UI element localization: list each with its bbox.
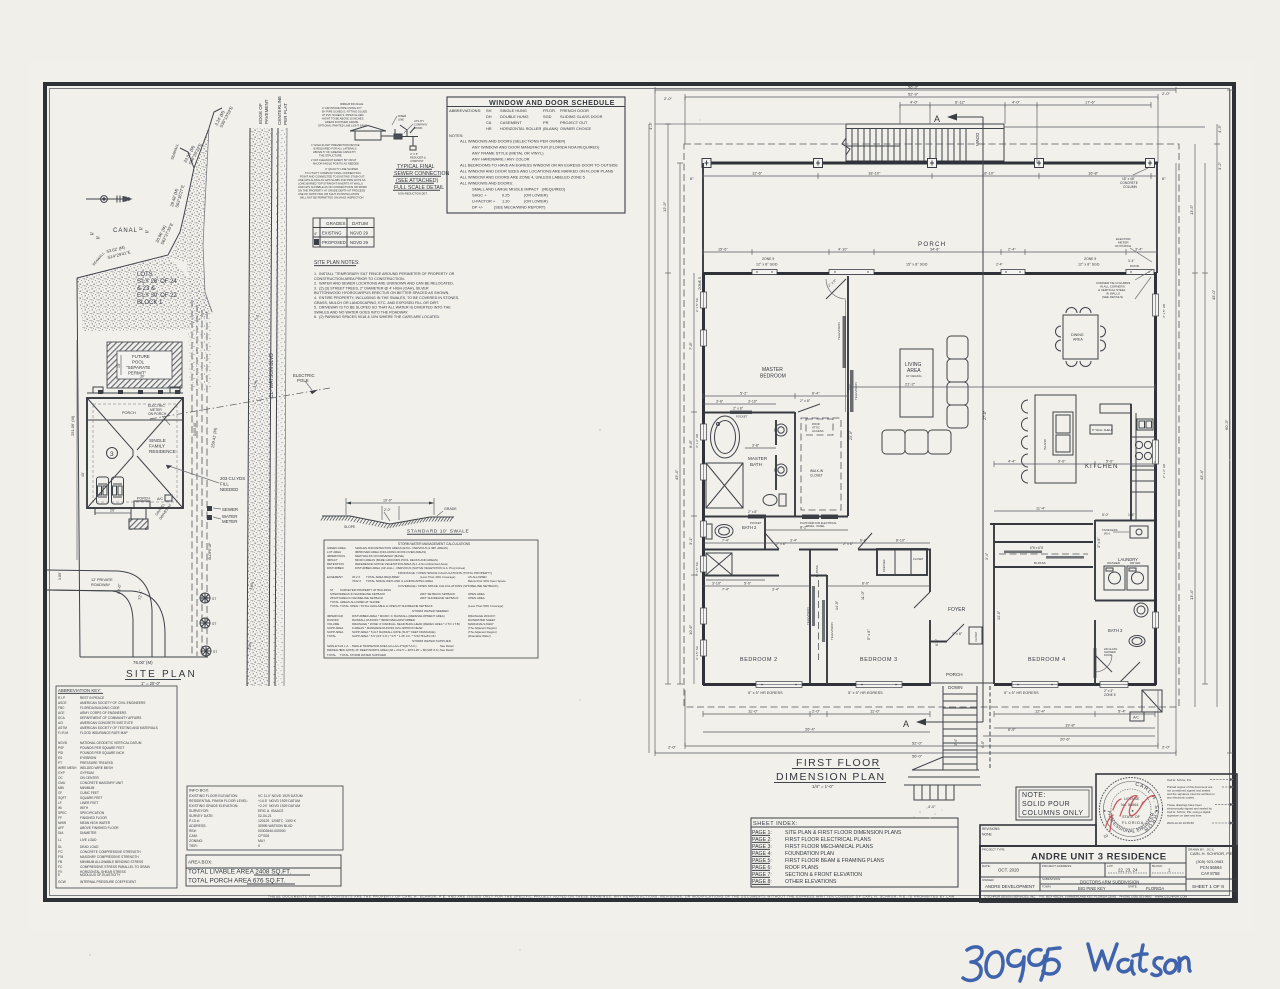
svg-text:DL: DL	[58, 845, 62, 849]
svg-text:W/: W/	[58, 806, 62, 810]
svg-text:SGD: SGD	[543, 114, 552, 119]
svg-text:CMU: CMU	[58, 781, 66, 785]
svg-text:PER PLAT: PER PLAT	[283, 103, 288, 125]
svg-text:LIVE LOAD: LIVE LOAD	[80, 838, 97, 842]
svg-text:4'-4": 4'-4"	[1008, 460, 1016, 464]
svg-text:GYP: GYP	[58, 771, 65, 775]
svg-text:SMALL AND LARGE MISSLE IMPACT: SMALL AND LARGE MISSLE IMPACT (REQUIRED)	[472, 187, 566, 192]
svg-text:60'-3": 60'-3"	[1224, 419, 1229, 430]
master bath top wall	[703, 412, 795, 414]
svg-text:DATE:: DATE:	[982, 864, 991, 868]
svg-text:F'M: F'M	[58, 855, 64, 859]
svg-text:1/4" = 1'-0": 1/4" = 1'-0"	[812, 784, 834, 789]
svg-text:4° x 3° HR: 4° x 3° HR	[695, 433, 699, 448]
svg-text:8'-2": 8'-2"	[800, 526, 808, 530]
svg-text:CARL H. SCHROR, P.E: CARL H. SCHROR, P.E	[1190, 851, 1233, 856]
info box	[187, 786, 343, 850]
red signature	[1106, 796, 1155, 831]
svg-text:WALK-IN: WALK-IN	[810, 469, 824, 473]
svg-text:3'-1": 3'-1"	[688, 536, 693, 545]
svg-text:TELEVISION: TELEVISION	[806, 607, 810, 625]
svg-text:PORCH: PORCH	[946, 672, 963, 677]
svg-text:WITH: WITH	[80, 806, 89, 810]
svg-text:SOLID POUR: SOLID POUR	[1022, 801, 1070, 808]
svg-text:30995 WATSON BLVD: 30995 WATSON BLVD	[258, 824, 293, 828]
svg-text:PAVEMENT: PAVEMENT	[264, 99, 269, 124]
svg-text:43'-4": 43'-4"	[674, 469, 679, 480]
svg-text:5. DRIVEWAY IS TO BE SLOPED S: 5. DRIVEWAY IS TO BE SLOPED SO THAT ALL …	[314, 306, 451, 310]
svg-text:NONE: NONE	[982, 833, 993, 837]
svg-text:REST IN PEACE: REST IN PEACE	[80, 696, 104, 700]
window and door schedule box	[447, 97, 625, 213]
svg-text:A: A	[903, 719, 909, 729]
svg-text:3: 3	[110, 451, 114, 458]
svg-text:DW-1(8X6) 16' DEEP WORKS AREA: DW-1(8X6) 16' DEEP WORKS AREA (A8 + 2X2.…	[340, 648, 439, 652]
svg-text:FBC: FBC	[58, 706, 65, 710]
svg-text:A: A	[934, 114, 940, 124]
front entry stairs	[904, 686, 990, 800]
svg-text:5'-4": 5'-4"	[1118, 709, 1127, 714]
bedroom divider closet walls	[809, 549, 811, 684]
living area box	[900, 349, 933, 417]
handwriting 30995 watson	[963, 944, 1190, 981]
svg-text:ALL BEDROOMS TO HAVE AN EGRESS: ALL BEDROOMS TO HAVE AN EGRESS WINDOW OR…	[460, 163, 618, 168]
leader fill note	[166, 465, 219, 483]
svg-text:FAMILY: FAMILY	[149, 444, 165, 449]
svg-text:FLORIDA: FLORIDA	[1146, 886, 1164, 891]
svg-text:6'-0": 6'-0"	[860, 539, 868, 543]
svg-text:2'-4": 2'-4"	[1008, 248, 1016, 252]
svg-text:5'-0": 5'-0"	[1102, 513, 1110, 517]
svg-text:SWALES AND NO WATER GOES INTO: SWALES AND NO WATER GOES INTO THE ROADWA…	[314, 310, 408, 314]
svg-text:SHEET INDEX:: SHEET INDEX:	[753, 821, 798, 827]
svg-text:LONG BURIED TOP STRAIGHT INVER: LONG BURIED TOP STRAIGHT INVERTS AT WALL…	[298, 182, 363, 186]
island	[1035, 395, 1076, 483]
svg-text:TIER:: TIER:	[189, 844, 198, 848]
porch column dim line	[703, 175, 1158, 177]
svg-text:POLE: POLE	[297, 378, 309, 383]
platform elec panel bars	[802, 515, 819, 520]
top dim line 3	[900, 104, 1151, 106]
svg-text:(BLANK): (BLANK)	[543, 126, 559, 131]
left vertical dims	[667, 124, 669, 684]
svg-text:00302840-000000: 00302840-000000	[258, 829, 286, 833]
svg-text:SHEET 1 OF 8: SHEET 1 OF 8	[1192, 884, 1224, 890]
svg-text:26'-4": 26'-4"	[805, 727, 816, 732]
svg-text:12' PRIVATE: 12' PRIVATE	[91, 578, 113, 582]
svg-text:6'-8": 6'-8"	[688, 439, 693, 448]
svg-text:ANDRE DEVELOPMENT: ANDRE DEVELOPMENT	[985, 884, 1035, 889]
svg-text:ACCESS: ACCESS	[812, 429, 824, 433]
svg-text:AT PVC SCHED.S, PIPES GLUED: AT PVC SCHED.S, PIPES GLUED	[322, 113, 364, 117]
svg-text:DRESSER: DRESSER	[882, 559, 886, 572]
seal side text	[1167, 778, 1215, 825]
svg-text:6'-4": 6'-4"	[812, 392, 820, 396]
note box	[1016, 787, 1092, 820]
svg-text:SURVEYOR:: SURVEYOR:	[189, 809, 209, 813]
svg-text:EDGE OF: EDGE OF	[258, 103, 263, 124]
svg-text:15'-6": 15'-6"	[718, 248, 728, 252]
sewer symbol	[207, 506, 212, 511]
svg-text:MEAN HIGH WATER: MEAN HIGH WATER	[80, 821, 111, 825]
roof line top strip	[87, 419, 183, 421]
svg-text:FUTURE: FUTURE	[132, 354, 150, 359]
svg-text:NOTE:: NOTE:	[1022, 792, 1046, 799]
svg-text:ABBREVIATION KEY:: ABBREVIATION KEY:	[58, 688, 101, 693]
svg-text:HR: HR	[486, 126, 492, 131]
svg-text:SITE PLAN: SITE PLAN	[126, 669, 197, 680]
svg-text:A/C: A/C	[1133, 716, 1139, 720]
svg-text:DISTURBED: DISTURBED	[327, 566, 344, 570]
svg-text:CONSTRUCTION AREA PRIOR TO CON: CONSTRUCTION AREA PRIOR TO CONSTRUCTION.	[314, 277, 405, 281]
svg-text:4. ENTIRE PROPERTY, INCLUDING: 4. ENTIRE PROPERTY, INCLUDING IN THE SWA…	[314, 296, 459, 300]
svg-text:(OR LOWER): (OR LOWER)	[524, 193, 548, 198]
svg-text:Carl H. Schror, P.A.: Carl H. Schror, P.A.	[1167, 778, 1192, 782]
sofa vertical	[947, 336, 968, 359]
svg-text:DOUBLE HUNG: DOUBLE HUNG	[500, 114, 529, 119]
svg-text:2'-0": 2'-0"	[668, 745, 677, 750]
svg-text:BEDROOM 2: BEDROOM 2	[740, 657, 778, 663]
svg-text:CASEMENT: CASEMENT	[500, 120, 522, 125]
svg-text:120129 1208TC 1300 K: 120129 1208TC 1300 K	[258, 819, 297, 823]
svg-text:6'-6": 6'-6"	[935, 638, 939, 646]
house porch strip	[87, 392, 183, 394]
svg-text:3.89': 3.89'	[58, 572, 62, 580]
bedroom3 closet	[877, 549, 927, 575]
svg-text:9'-0": 9'-0"	[1058, 460, 1066, 464]
svg-text:OWNER CHOICE: OWNER CHOICE	[560, 126, 592, 131]
washer dryer	[1104, 566, 1125, 590]
svg-text:ROOF PLANS: ROOF PLANS	[785, 865, 819, 871]
svg-text:RESIDENCE: RESIDENCE	[149, 449, 176, 454]
svg-text:STANDARD 10' SWALE: STANDARD 10' SWALE	[407, 529, 469, 535]
svg-text:CLOSET: CLOSET	[810, 474, 823, 478]
svg-text:LL: LL	[58, 838, 62, 842]
svg-text:MINIMUM: MINIMUM	[80, 786, 95, 790]
svg-text:EASEMENT: EASEMENT	[327, 575, 343, 579]
svg-text:3° x 5° HR: 3° x 5° HR	[1162, 303, 1166, 318]
svg-text:8'-10": 8'-10"	[896, 539, 906, 543]
svg-text:★: ★	[1131, 809, 1134, 813]
svg-text:SLIDING GLASS DOOR: SLIDING GLASS DOOR	[560, 114, 603, 119]
svg-text:SUPP AREA * 5.5' (9.5' F.O.) *: SUPP AREA * 5.5' (9.5' F.O.) * 0.5' * 1.…	[352, 634, 436, 638]
svg-text:FLOOD INSURANCE RATE MAP: FLOOD INSURANCE RATE MAP	[80, 731, 128, 735]
svg-text:ANY FRAME STYLE (METAL OR VINY: ANY FRAME STYLE (METAL OR VINYL)	[472, 151, 544, 156]
svg-text:2° x 5° SH: 2° x 5° SH	[695, 298, 699, 312]
svg-text:F'C: F'C	[58, 850, 64, 854]
road edge of pavement strip	[247, 128, 272, 686]
svg-text:GYPSUM: GYPSUM	[80, 771, 94, 775]
svg-text:EXISTING GRADE ELEVATION:: EXISTING GRADE ELEVATION:	[189, 804, 238, 808]
svg-text:ABOVE FINISHED FLOOR: ABOVE FINISHED FLOOR	[80, 826, 119, 830]
svg-text:1.20: 1.20	[502, 199, 510, 204]
svg-text:ALL WINDOWS AND DOORS:: ALL WINDOWS AND DOORS:	[460, 181, 513, 186]
svg-text:HORIZONTAL ROLLER: HORIZONTAL ROLLER	[500, 126, 541, 131]
svg-text:52'-0": 52'-0"	[912, 741, 923, 746]
svg-text:REVISIONS:: REVISIONS:	[982, 827, 1000, 831]
svg-text:ANY WINDOW AND DOOR MANUFACTUR: ANY WINDOW AND DOOR MANUFACTUR (FLORIDA …	[472, 145, 600, 150]
svg-text:PROJECT OUT: PROJECT OUT	[560, 120, 588, 125]
svg-text:(305) 923-0983: (305) 923-0983	[1196, 859, 1224, 864]
stools	[1022, 400, 1028, 413]
svg-text:4'-3": 4'-3"	[1217, 124, 1222, 133]
svg-text:ACE: ACE	[58, 711, 65, 715]
svg-text:3° x 5° SH: 3° x 5° SH	[695, 562, 699, 576]
lot east edge line	[203, 128, 212, 312]
stove	[1131, 437, 1155, 466]
sgd dim line	[703, 251, 1157, 253]
svg-text:DINING: DINING	[1071, 333, 1084, 337]
pool dims	[120, 355, 122, 375]
driveway below house	[95, 508, 148, 530]
svg-text:56'-3": 56'-3"	[908, 85, 919, 90]
top dim line 2	[685, 96, 1158, 98]
svg-text:CONCRETE COMPRESSIVE STRENGTH: CONCRETE COMPRESSIVE STRENGTH	[80, 850, 141, 854]
svg-text:7632 X: 7632 X	[352, 579, 361, 583]
water meter symbol	[207, 515, 212, 520]
tankless wh	[1130, 526, 1148, 538]
svg-text:40': 40'	[81, 472, 85, 477]
svg-text:OTHER ELEVATIONS: OTHER ELEVATIONS	[785, 879, 837, 885]
svg-text:ANDRE UNIT 3 RESIDENCE: ANDRE UNIT 3 RESIDENCE	[1031, 852, 1167, 863]
svg-text:CENTERLINE: CENTERLINE	[277, 96, 282, 125]
svg-text:2 VAT CLEANOUT EVERY 50" OR AT: 2 VAT CLEANOUT EVERY 50" OR AT	[311, 158, 357, 162]
svg-text:DCA: DCA	[58, 716, 66, 720]
svg-text:FOYER: FOYER	[948, 607, 966, 613]
svg-text:10' CEILING: 10' CEILING	[906, 374, 922, 378]
svg-text:4'-3": 4'-3"	[648, 121, 653, 130]
bearing leader mid	[180, 148, 194, 168]
svg-text:BI-PASS: BI-PASS	[1034, 561, 1046, 565]
hip roof diagonals	[88, 399, 133, 450]
house rect	[87, 398, 183, 508]
svg-text:NGVD 29: NGVD 29	[350, 240, 369, 245]
svg-text:INTERNAL PRESSURE COEFFICIENT: INTERNAL PRESSURE COEFFICIENT	[80, 880, 136, 884]
bedroom3 right wall	[929, 549, 931, 592]
right wall window	[1153, 294, 1159, 316]
svg-text:ON PORCH: ON PORCH	[1115, 244, 1131, 248]
kitchen sink right	[1137, 419, 1153, 430]
svg-text:76.00' (M): 76.00' (M)	[133, 660, 153, 665]
master door leaf	[826, 279, 846, 299]
svg-text:★: ★	[1103, 809, 1106, 813]
svg-text:COLUMN: COLUMN	[1123, 185, 1138, 189]
svg-text:MHW: MHW	[58, 821, 66, 825]
approach curves	[47, 570, 152, 657]
svg-text:2° x 8°: 2° x 8°	[843, 542, 854, 546]
svg-text:METER: METER	[222, 519, 237, 524]
svg-text:SQUARE FEET: SQUARE FEET	[80, 796, 103, 800]
future pool hatched rect	[107, 342, 182, 388]
svg-text:4 "HIGH-FLOW" PREVENTION DEVIC: 4 "HIGH-FLOW" PREVENTION DEVICE	[311, 143, 360, 147]
bedroom2 top wall	[703, 575, 779, 577]
svg-text:5° x 5° HR EGRESS: 5° x 5° HR EGRESS	[1004, 691, 1039, 695]
svg-text:5'-0": 5'-0"	[744, 582, 752, 586]
svg-text:3'-4": 3'-4"	[790, 539, 798, 543]
svg-text:PR: PR	[543, 120, 549, 125]
svg-text:SITE PLAN & FIRST FLOOR DIMENS: SITE PLAN & FIRST FLOOR DIMENSION PLANS	[785, 830, 902, 836]
svg-text:PROJECT TYPE:: PROJECT TYPE:	[982, 848, 1006, 852]
svg-text:4" AIR INTAKE PIPE USING 2X?: 4" AIR INTAKE PIPE USING 2X?	[322, 106, 362, 110]
svg-text:ST: ST	[212, 597, 216, 601]
svg-text:2'-4": 2'-4"	[996, 263, 1004, 267]
svg-text:LINE: LINE	[398, 118, 404, 122]
extension verticals top	[654, 90, 656, 753]
svg-text:6. (2) PARKING SPACES 9X18 &: 6. (2) PARKING SPACES 9X18 & 10% WHERE T…	[314, 315, 440, 319]
svg-text:RE#:: RE#:	[189, 829, 197, 833]
svg-text:COMPOST: COMPOST	[410, 159, 424, 163]
svg-text:2020-12-10 10:59:50: 2020-12-10 10:59:50	[1167, 821, 1194, 825]
svg-text:W.H.: W.H.	[1104, 532, 1111, 536]
svg-text:13'-4": 13'-4"	[1189, 589, 1194, 600]
revisions box	[980, 825, 1096, 846]
svg-text:(Less Than 50% Coverage): (Less Than 50% Coverage)	[468, 604, 503, 608]
svg-text:14'-0": 14'-0"	[835, 600, 839, 610]
svg-text:PRESSURE TREATED: PRESSURE TREATED	[80, 761, 114, 765]
svg-text:SURVEY DATE:: SURVEY DATE:	[189, 814, 214, 818]
svg-text:POOL: POOL	[132, 360, 145, 365]
bedroom4 closet bipass	[994, 541, 1093, 543]
svg-text:56'-0": 56'-0"	[912, 754, 923, 759]
svg-text:≈: ≈	[145, 229, 149, 236]
svg-text:II: II	[258, 844, 260, 848]
svg-text:19'-8": 19'-8"	[1065, 723, 1076, 728]
mbath dim	[745, 447, 776, 449]
svg-text:BLOCK 1: BLOCK 1	[137, 300, 163, 306]
svg-text:STORM WATER SUPPLIED: STORM WATER SUPPLIED	[412, 639, 452, 643]
svg-text:ERIC A. ISAACS: ERIC A. ISAACS	[258, 809, 284, 813]
bearing tick top	[209, 108, 222, 128]
svg-text:ABOVE 5" OF GREASE CAPACITY: ABOVE 5" OF GREASE CAPACITY	[313, 150, 356, 154]
svg-text:DOOR: DOOR	[1104, 653, 1112, 657]
svg-text:251.06' (M): 251.06' (M)	[70, 415, 75, 436]
svg-text:CL- WATSON BLVD: CL- WATSON BLVD	[269, 353, 275, 398]
svg-text:signature on date and time.: signature on date and time.	[1167, 814, 1202, 818]
svg-text:ST: ST	[213, 650, 217, 654]
svg-text:5° x 5° HR EGRESS: 5° x 5° HR EGRESS	[748, 691, 783, 695]
svg-text:OWNER:: OWNER:	[982, 878, 994, 882]
svg-text:DIAMETER: DIAMETER	[80, 831, 97, 835]
svg-text:7'-4": 7'-4"	[722, 539, 730, 543]
svg-text:TELEVISION: TELEVISION	[854, 382, 858, 400]
lot fill slope strip	[188, 318, 211, 390]
bedroom2/3 dims	[703, 585, 810, 587]
svg-text:MASONRY COMPRESSIVE STRENGTH: MASONRY COMPRESSIVE STRENGTH	[80, 855, 139, 859]
svg-text:LINER FEET: LINER FEET	[80, 801, 98, 805]
svg-text:TOTAL: TOTAL	[327, 653, 336, 657]
svg-text:AREA: AREA	[1073, 338, 1083, 342]
svg-text:TOTAL: TOTAL	[330, 604, 339, 608]
sewer detail tiny paragraphs	[298, 102, 428, 200]
svg-text:FF: FF	[58, 816, 62, 820]
svg-text:BATH: BATH	[750, 462, 762, 467]
svg-text:ALL WINDOW AND DOOR SIZES AND: ALL WINDOW AND DOOR SIZES AND LOCATIONS …	[460, 169, 614, 174]
svg-text:COVERAGE / OPEN SPACE CALCULAT: COVERAGE / OPEN SPACE CALCULATIONS (SHOR…	[398, 584, 498, 588]
svg-text:SPECIFICATION: SPECIFICATION	[80, 811, 105, 815]
svg-text:FC: FC	[58, 865, 63, 869]
svg-text:ON THE PROPERTY AT GRADE DEPTH: ON THE PROPERTY AT GRADE DEPTH AT PROCES…	[298, 189, 365, 193]
svg-text:AMERICAN SOCIETY OF CIVIL ENGI: AMERICAN SOCIETY OF CIVIL ENGINEERS	[80, 701, 145, 705]
storm water calc box	[324, 540, 538, 658]
svg-text:BEDROOM: BEDROOM	[760, 374, 786, 380]
svg-text:CA# 8758: CA# 8758	[1201, 871, 1220, 876]
svg-text:AND GPS SUITABLE AS NO CONNECT: AND GPS SUITABLE AS NO CONNECTIONS OR WO…	[298, 185, 367, 189]
svg-text:CF'S08: CF'S08	[258, 834, 269, 838]
svg-text:BUTTONWOOD HYDROCARPUS ERECTUS: BUTTONWOOD HYDROCARPUS ERECTUS ON BETTER…	[314, 291, 449, 295]
svg-text:2'-0": 2'-0"	[1162, 91, 1171, 96]
svg-text:E: E	[58, 873, 60, 877]
svg-text:"SEPARATE: "SEPARATE	[126, 365, 150, 370]
svg-text:FB: FB	[58, 860, 62, 864]
svg-text:HIGHT TO BE ABOVE 10 INCHES: HIGHT TO BE ABOVE 10 INCHES	[322, 117, 364, 121]
svg-text:10'-0": 10'-0"	[383, 499, 393, 503]
svg-text:7'-8": 7'-8"	[688, 341, 693, 350]
svg-text:NGVD: NGVD	[58, 741, 68, 745]
svg-text:MU?: MU?	[258, 839, 265, 843]
svg-text:FOUNDATION PLAN: FOUNDATION PLAN	[785, 851, 834, 857]
svg-text:TOTAL STORM WATER SUPPLIED: TOTAL STORM WATER SUPPLIED	[340, 653, 386, 657]
svg-text:any electronic copies.: any electronic copies.	[1167, 796, 1195, 800]
svg-text:23'-0": 23'-0"	[849, 430, 853, 440]
pool inner	[117, 351, 172, 379]
svg-text:POUNDS PER SQUARE INCH: POUNDS PER SQUARE INCH	[80, 751, 125, 755]
svg-text:NGVD 29: NGVD 29	[350, 231, 369, 236]
svg-text:NEEDED: NEEDED	[220, 487, 238, 492]
svg-text:USE OF NOTIFYING OR SHUT IN IN: USE OF NOTIFYING OR SHUT IN INSTALLATION	[298, 192, 359, 196]
svg-text:3'-4": 3'-4"	[1135, 248, 1143, 252]
svg-text:11'-0": 11'-0"	[870, 709, 880, 714]
svg-text:FRENCH DOOR: FRENCH DOOR	[560, 108, 589, 113]
svg-text:ES: ES	[58, 756, 62, 760]
lot fill stipple triangle lower	[77, 256, 213, 331]
svg-text:TOTAL OPEN / TOTAL AVAILABLE &: TOTAL OPEN / TOTAL AVAILABLE & OPEN AT S…	[340, 604, 433, 608]
svg-text:13'-0": 13'-0"	[997, 610, 1001, 620]
hall dim	[703, 542, 930, 544]
svg-text:18'-10": 18'-10"	[982, 171, 995, 176]
svg-text:1. INSTALL "TEMPORARY SILT FE: 1. INSTALL "TEMPORARY SILT FENCE AROUND …	[314, 272, 455, 276]
svg-text:POINT AND CONNECTED TO EXISTIN: POINT AND CONNECTED TO EXISTING STUB-OUT…	[300, 175, 365, 179]
svg-text:ZONING:: ZONING:	[189, 839, 203, 843]
svg-text:2. WATER AND SEWER LOCATIONS: 2. WATER AND SEWER LOCATIONS ARE UNKNOWN…	[314, 282, 454, 286]
stair top line	[846, 123, 1004, 125]
svg-text:RESIDENTIAL FINISH FLOOR LEVEL: RESIDENTIAL FINISH FLOOR LEVEL:	[189, 799, 248, 803]
svg-text:NATIONAL GEODETIC VERTICAL DAT: NATIONAL GEODETIC VERTICAL DATUM	[80, 741, 142, 745]
svg-text:PSF: PSF	[58, 746, 64, 750]
svg-text:C-SCHROR DESIGN SERVICES, INC: C-SCHROR DESIGN SERVICES, INC P.O. BOX 4…	[984, 895, 1188, 899]
svg-text:(OR LOWER): (OR LOWER)	[524, 199, 548, 204]
svg-text:2° x 3° HR: 2° x 3° HR	[1162, 463, 1166, 478]
hall wall kitchen/bed4	[990, 523, 1093, 525]
svg-text:2'-0": 2'-0"	[1162, 745, 1171, 750]
svg-text:CA: CA	[486, 120, 492, 125]
svg-text:PROPOSED: PROPOSED	[322, 240, 346, 245]
svg-text:& 23 &: & 23 &	[137, 286, 155, 292]
svg-text:2° x 8°: 2° x 8°	[748, 510, 758, 514]
svg-text:TELEVISION: TELEVISION	[837, 322, 841, 340]
svg-text:GCW: GCW	[58, 880, 66, 884]
svg-text:See Detail: See Detail	[440, 648, 454, 652]
laundry walls	[1094, 520, 1096, 600]
svg-text:22, 23, 24: 22, 23, 24	[1118, 868, 1138, 873]
svg-text:MIN: MIN	[58, 786, 65, 790]
svg-text:REDUCER &: REDUCER &	[410, 156, 426, 160]
svg-text:TOTAL PORCH AREA 676 SQ.FT.: TOTAL PORCH AREA 676 SQ.FT.	[188, 878, 285, 885]
svg-text:≈: ≈	[96, 235, 100, 242]
svg-text:14': 14'	[117, 363, 121, 368]
window marks bottom wall	[756, 682, 1128, 688]
svg-text:AREA BOX:: AREA BOX:	[188, 860, 213, 865]
svg-text:BEDROOM 3: BEDROOM 3	[860, 657, 898, 663]
